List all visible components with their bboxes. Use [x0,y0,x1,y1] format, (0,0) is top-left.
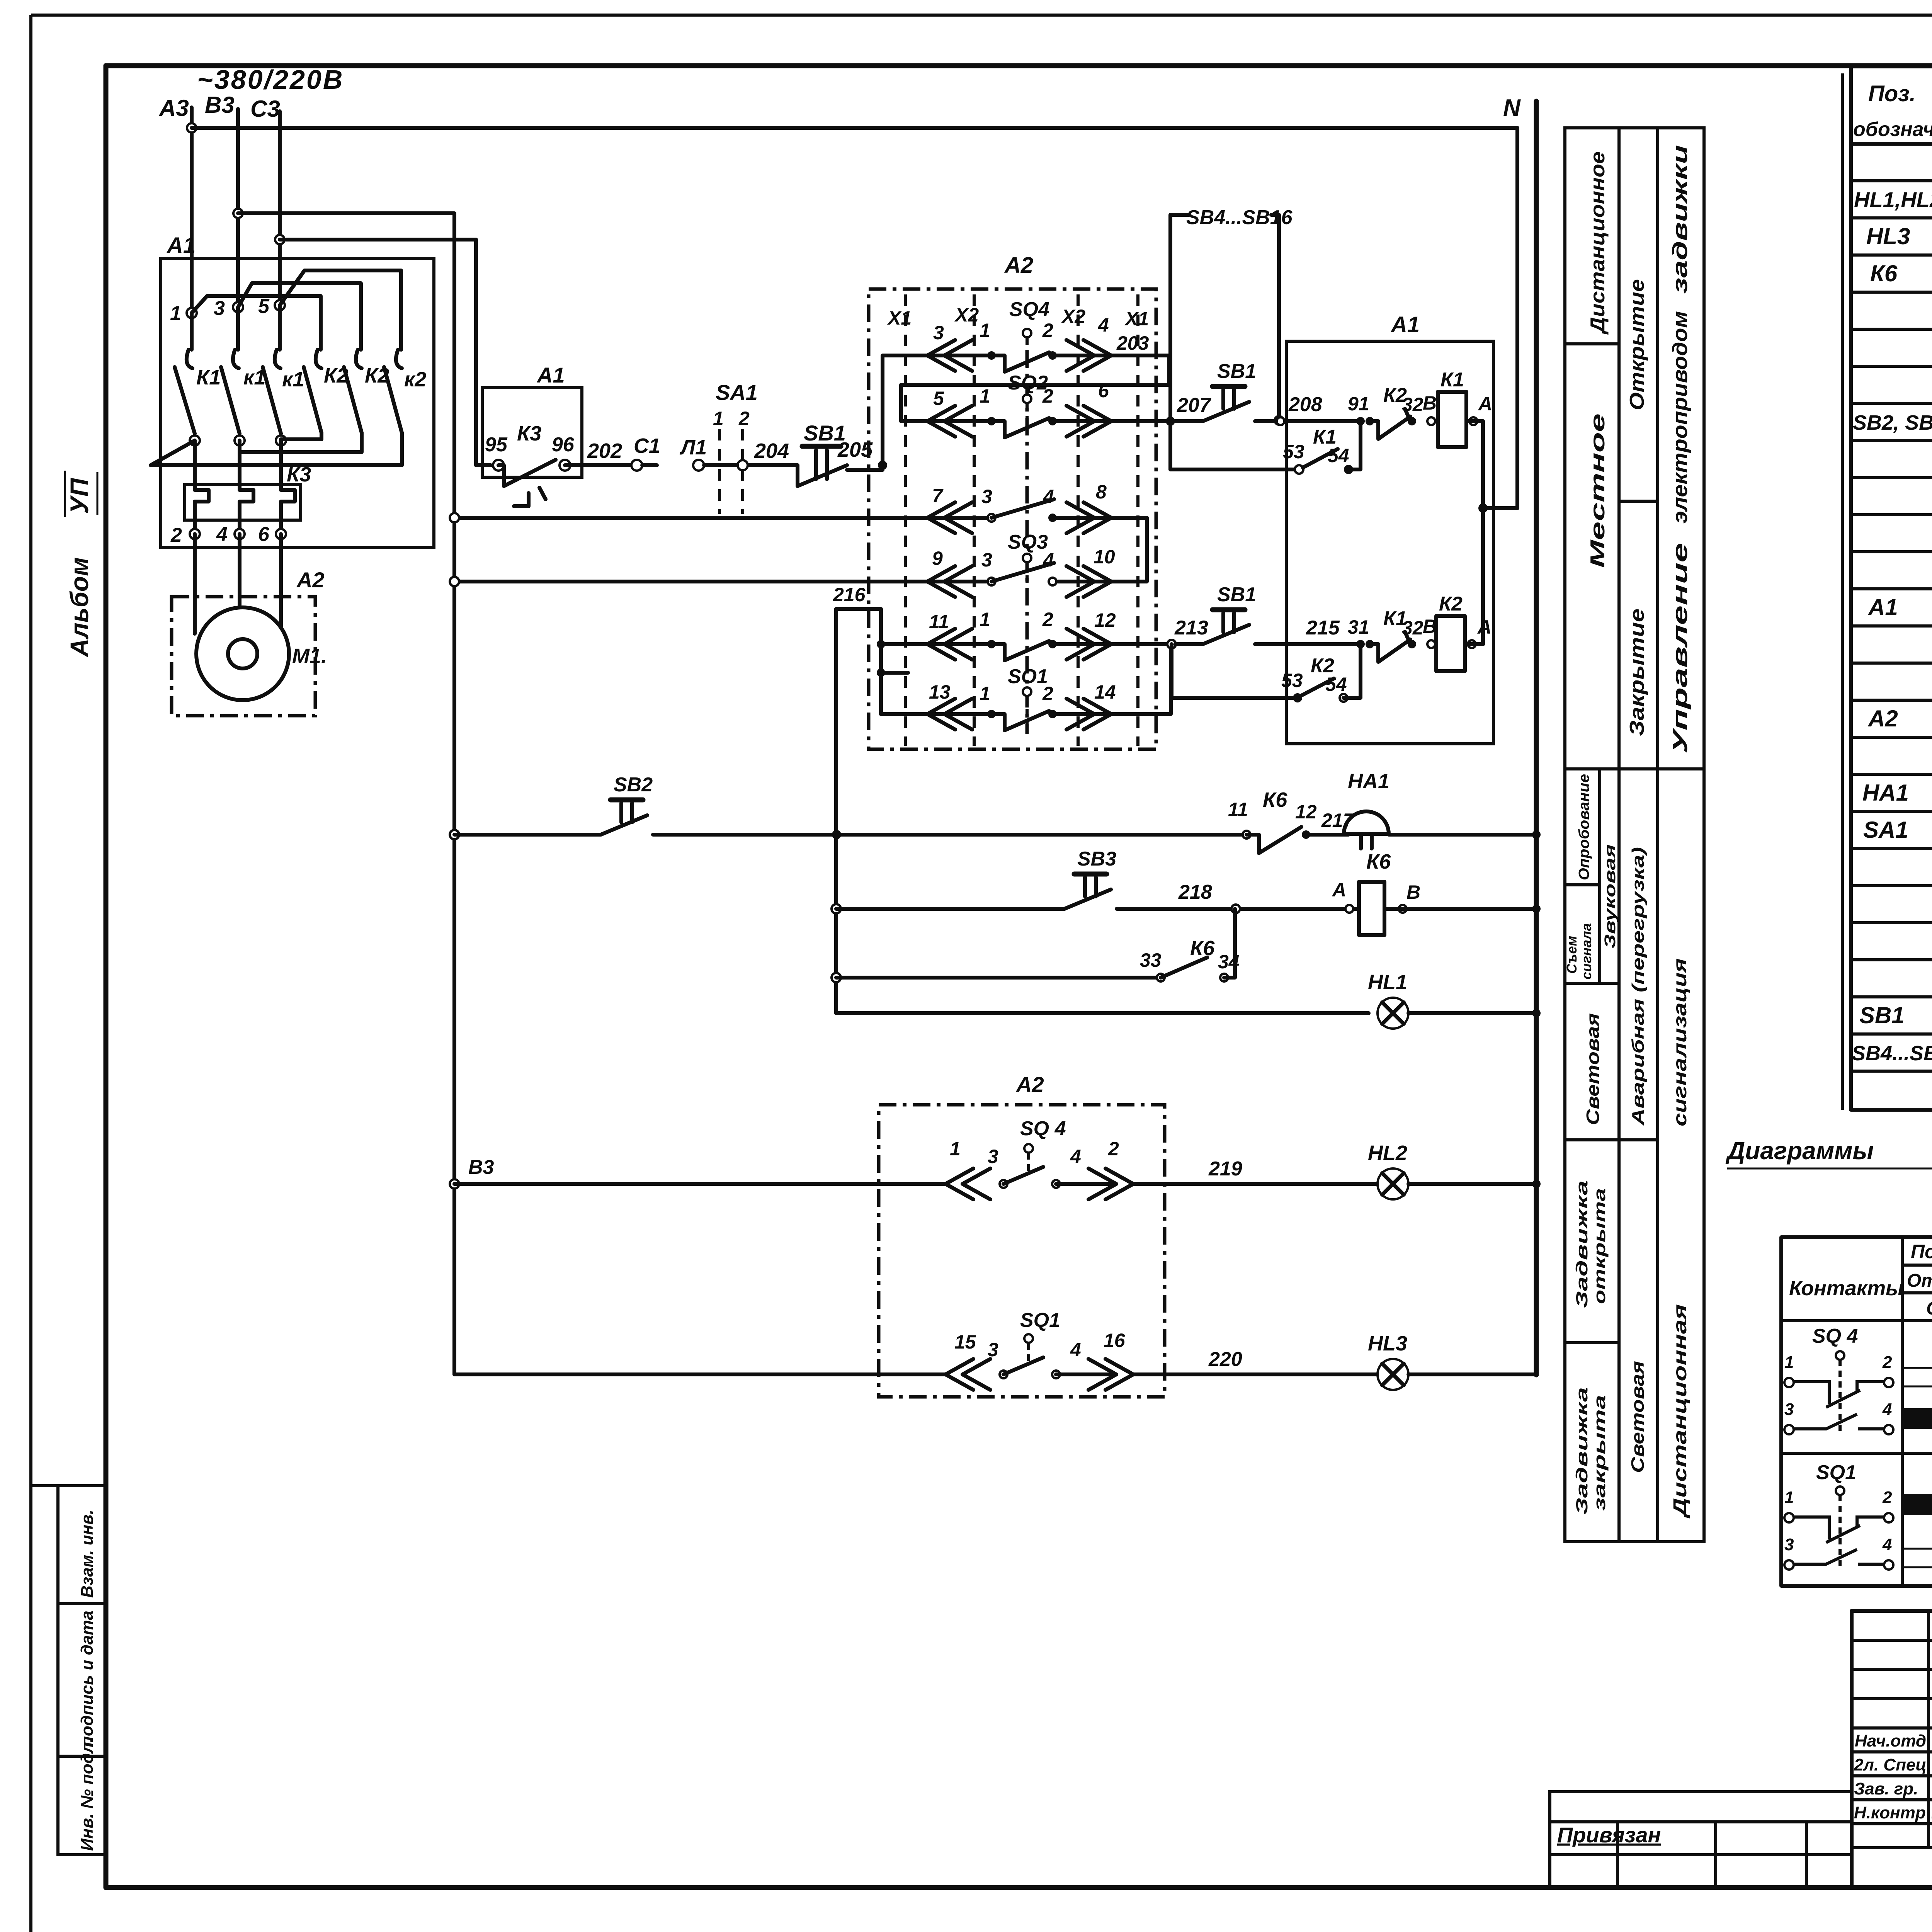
valve actuator box A2 (dash-dot) [869,253,1156,749]
svg-text:2: 2 [1882,1488,1892,1507]
svg-text:Взам. инв.: Взам. инв. [78,1510,97,1598]
svg-text:Опробование: Опробование [1576,774,1592,880]
limit switch SQ1 (signal row 15-3-4-16) [946,1309,1133,1390]
limit switch SQ1 row (pins 13-1-2-14) [927,644,1171,730]
limit switch row 11-12 [927,609,1170,660]
svg-text:4: 4 [1882,1535,1892,1554]
bell HA1 [1344,770,1536,849]
signature rows [1854,1731,1932,1822]
push button SB1 (open) [1170,360,1256,421]
wire trunk to contact 33 [836,976,1158,980]
svg-text:95: 95 [485,434,508,456]
svg-text:Х2: Х2 [954,304,979,326]
SQ4 closure bars [1902,1338,1932,1429]
svg-text:1: 1 [1784,1353,1794,1372]
svg-text:4: 4 [1070,1339,1081,1361]
svg-text:3: 3 [988,1339,998,1361]
wire phase C3 vertical [278,111,282,305]
terminal 4 [235,529,245,539]
svg-text:А2: А2 [296,568,325,592]
svg-text:Задвижка: Задвижка [1573,1180,1591,1308]
node 31 [1356,640,1365,648]
svg-text:А: А [1477,616,1492,638]
parts list table [1842,66,1932,1110]
wire motor feed 2 [238,534,241,607]
node B3 bus SB2 tap [450,830,459,839]
svg-text:Х1: Х1 [887,307,912,329]
svg-text:сигнализация: сигнализация [1670,958,1690,1126]
svg-text:электроприводом: электроприводом [1668,311,1692,524]
svg-text:4: 4 [1882,1400,1892,1419]
left stamp cells [31,1486,106,1855]
left attachment grid [1550,1792,1852,1888]
interlock contact K2 53-54 [1172,644,1361,702]
svg-text:218: 218 [1178,881,1212,903]
node B3 219 tap [450,1179,459,1189]
relay contact K2 NC 91-32 [1370,384,1437,439]
svg-text:Управление: Управление [1668,543,1692,753]
svg-text:SВ1: SВ1 [1217,583,1256,606]
table body rows [1852,148,1932,1065]
wire trunk to SB3 [836,907,1065,911]
wire C3 tap down to K3 thermal contact 95 [280,240,491,465]
svg-text:открыта: открыта [1590,1188,1609,1304]
svg-text:Поз.: Поз. [1868,81,1916,106]
lamp HL1 [1368,971,1536,1029]
limit switch SQ2 row (pins 5-1-2-6, to 207) [927,372,1170,437]
svg-text:А1: А1 [166,233,196,258]
coil K2 [1408,593,1492,671]
svg-text:2: 2 [170,524,182,546]
svg-text:К6: К6 [1190,937,1215,960]
svg-text:обознач.: обознач. [1853,118,1932,141]
svg-text:202: 202 [587,439,622,463]
svg-text:Дистанционное: Дистанционное [1587,151,1609,335]
starter box A1 [161,259,434,548]
svg-text:Световая: Световая [1628,1361,1648,1473]
terminal 6 [276,529,286,539]
svg-text:К3: К3 [517,422,541,445]
svg-text:SВ1: SВ1 [1217,360,1256,383]
svg-text:А2: А2 [1004,253,1033,278]
wire K2a bottom to pole3 node [281,433,321,439]
svg-text:Нач.отд: Нач.отд [1855,1731,1926,1750]
svg-text:К1: К1 [196,366,221,389]
left diagram table [1781,1237,1932,1586]
wire 219 to HL2 [1133,1182,1378,1186]
svg-text:3: 3 [1784,1400,1794,1419]
svg-text:2л. Спец.: 2л. Спец. [1854,1755,1931,1774]
wire row6 entry [881,712,992,716]
svg-text:Открыта: Открыта [1926,1298,1932,1319]
svg-text:Н.контр: Н.контр [1854,1803,1926,1822]
wire N bus [1534,101,1539,1375]
lamp HL2 [1368,1141,1536,1199]
svg-text:13: 13 [929,681,951,703]
svg-text:3: 3 [988,1146,998,1167]
svg-text:SQ2: SQ2 [1008,372,1048,394]
svg-text:А: А [1332,879,1346,901]
svg-text:Открытие: Открытие [1626,279,1648,410]
svg-text:5: 5 [933,388,944,409]
wire 208 into A1 [1255,419,1361,423]
svg-text:1: 1 [170,302,181,325]
svg-text:216: 216 [833,584,866,605]
svg-text:1: 1 [713,408,724,429]
wire top bus A3 to coil feed corner [192,128,1517,508]
svg-text:SВ4...SВ16: SВ4...SВ16 [1186,206,1293,229]
svg-text:12: 12 [1295,801,1317,823]
svg-text:32: 32 [1402,394,1423,415]
svg-text:4: 4 [1098,314,1109,336]
coil K6 [1332,850,1536,935]
svg-text:HL2: HL2 [1368,1141,1407,1165]
svg-text:208: 208 [1288,393,1322,416]
node 208 box entry [1277,417,1284,425]
svg-text:3: 3 [1784,1535,1794,1554]
svg-text:Задвижка: Задвижка [1573,1387,1591,1515]
svg-text:А1: А1 [536,363,565,387]
svg-text:54: 54 [1325,673,1347,695]
svg-text:1: 1 [980,609,990,630]
svg-text:N: N [1503,95,1521,121]
svg-text:2: 2 [1882,1353,1892,1372]
wire phase B3 vertical [236,109,240,307]
svg-text:6: 6 [1098,380,1109,401]
heater element pole2 [240,440,253,534]
svg-text:К6: К6 [1263,788,1287,811]
contactor K1 pole 2 [221,307,265,434]
svg-text:Аварибная (перегрузка): Аварибная (перегрузка) [1629,847,1648,1126]
node C3 tap [275,235,284,244]
node 91 [1356,417,1365,425]
motor unit box A2 [172,568,325,716]
svg-text:В3: В3 [205,92,235,118]
node trunk 205 [878,461,887,470]
svg-text:207: 207 [1177,394,1211,417]
svg-text:НА1: НА1 [1862,780,1909,806]
svg-text:НL1,HL2: НL1,HL2 [1854,187,1932,212]
wire to feed vertical [1483,506,1517,510]
svg-text:16: 16 [1104,1330,1126,1351]
wire trunk corner to HL1 [836,1011,1369,1015]
svg-text:сигнала: сигнала [1578,923,1594,980]
svg-text:219: 219 [1208,1158,1242,1180]
thermal relay K3 box [185,463,311,520]
svg-text:Альбом: Альбом [65,557,94,658]
contactor K1 pole 3 [263,305,304,434]
svg-text:М1.: М1. [292,645,327,668]
svg-text:Местное: Местное [1587,413,1609,568]
relay contact K1 NC 31-32 [1370,607,1437,662]
limit switch SQ3 upper row (pins 7-3-4-8) [927,481,1147,533]
limit switch SQ3 lower row (pins 9-3-4-10) [927,531,1115,597]
motor M1 [196,607,327,700]
svg-text:215: 215 [1306,617,1340,639]
svg-text:3: 3 [933,322,944,344]
terminal 1 [187,308,197,318]
wire SB2 to K6 contact [653,833,1243,837]
svg-text:14: 14 [1094,681,1116,703]
svg-text:96: 96 [552,434,575,456]
node 207 [1166,417,1175,426]
diagrams title [1725,1137,1932,1214]
contactor K2 pole 3 [384,350,426,433]
svg-text:53: 53 [1283,441,1304,463]
wire crossover phase5 to K2c [280,270,401,350]
svg-text:Х2: Х2 [1061,306,1085,327]
svg-text:НА1: НА1 [1348,770,1389,793]
terminal 3 [233,302,243,312]
wire crossover phase1 to K2a [192,296,321,350]
vertical legend table [1565,128,1704,1542]
svg-text:С3: С3 [250,96,280,122]
svg-text:закрыта: закрыта [1590,1395,1609,1511]
svg-text:1: 1 [950,1138,961,1160]
svg-text:SА1: SА1 [1863,817,1908,843]
SQ1 closure bars [1902,1469,1932,1568]
wire 215 into A1 [1255,642,1361,646]
switch symbol SQ4 [1784,1325,1893,1434]
svg-text:Диаграммы: Диаграммы [1725,1137,1874,1165]
wire K2b bottom to pole2 node [240,433,362,452]
connector line X1 right [1124,294,1149,746]
contactor K2 pole 1 [304,350,348,433]
svg-text:SQ1: SQ1 [1816,1461,1856,1484]
svg-text:А3: А3 [158,95,189,121]
svg-text:подпись и дата: подпись и дата [78,1611,97,1747]
switch symbol SQ1 [1784,1461,1893,1570]
svg-text:к2: к2 [404,368,426,391]
node coil feed junction [1478,503,1488,513]
label Задвижка закрыта [1573,1387,1609,1515]
svg-text:А2: А2 [1867,706,1898,731]
svg-text:К6: К6 [1870,260,1898,286]
svg-text:2: 2 [738,408,750,429]
node bell to N [1532,830,1541,839]
wire loop row1 to row2 [901,355,1169,421]
wire L1 to SA1 [704,463,798,467]
thermal NC contact K3 95-96 [485,422,575,506]
title block frame [1852,1611,1932,1888]
svg-text:31: 31 [1348,616,1369,638]
connector line X2 right [1061,294,1085,746]
svg-text:В3: В3 [468,1156,494,1179]
wire stub into box [881,671,908,675]
svg-text:~380/220В: ~380/220В [197,65,344,95]
node stub tap [877,668,885,677]
limit switch SQ4 (signal row 1-3-4-2) [946,1117,1133,1199]
svg-text:Х1: Х1 [1124,308,1149,330]
contactor K2 pole 2 [344,350,389,433]
svg-text:32: 32 [1402,617,1423,639]
svg-text:Открытие: Открытие [1907,1270,1932,1291]
wire row3 from B3 bus [454,516,992,520]
wire B3 tap to left bus [238,213,454,1374]
album label rotated: Альбом VII [65,471,97,658]
svg-text:9: 9 [932,548,943,569]
svg-text:SQ4: SQ4 [1009,298,1049,321]
node lower pole 2 [235,435,245,446]
label Задвижка открыта [1573,1180,1609,1308]
node signal trunk top [832,830,841,839]
limit switch SQ4 row (pins 3-1-2-4, wire 203) [927,298,1169,372]
svg-text:1: 1 [1784,1488,1794,1507]
node HL1 to N [1532,1009,1541,1017]
svg-text:SВ4...SВ16: SВ4...SВ16 [1852,1042,1932,1065]
wire row4 from B3 bus [454,580,992,583]
svg-text:HL1: HL1 [1368,971,1407,994]
node lower pole 1 [190,435,200,446]
wire coil return riser [1481,421,1485,644]
svg-text:SВ2: SВ2 [614,774,653,796]
wire 216 feed [833,584,881,714]
node 218 [1231,905,1240,913]
svg-text:Инв. № подл.: Инв. № подл. [78,1738,97,1851]
push button SB3 [1065,848,1116,909]
node row3 bus tap [450,513,459,522]
svg-text:3: 3 [214,297,225,320]
svg-text:11: 11 [929,611,949,633]
lamp HL3 [1368,1332,1536,1390]
terminal L1 [693,460,704,471]
interlock contact K1 53-54 [1170,421,1361,474]
svg-text:1: 1 [980,320,990,341]
wire 219 row [454,1182,946,1186]
svg-text:А: А [1478,393,1492,415]
node K6 to N [1532,905,1541,913]
wire 220 row from B3 [454,1372,946,1376]
svg-text:SВ2, SВ3: SВ2, SВ3 [1853,411,1932,434]
svg-text:В: В [1406,881,1420,903]
svg-text:А2: А2 [1015,1072,1044,1097]
svg-text:Зав. гр.: Зав. гр. [1854,1779,1918,1798]
svg-text:4: 4 [1070,1146,1081,1167]
svg-text:SQ3: SQ3 [1008,531,1048,553]
relay contact K6 11-12 [1228,788,1355,853]
contactor K1 pole 1 [175,313,221,434]
relay contact K6 33-34 [1140,909,1240,981]
wire 205 to A2 trunk [847,465,883,470]
svg-text:А1: А1 [1390,312,1420,337]
svg-text:91: 91 [1348,393,1369,415]
svg-text:213: 213 [1174,617,1208,639]
svg-text:SВ3: SВ3 [1077,848,1116,870]
svg-text:Положение задвижки: Положение задвижки [1911,1241,1932,1262]
svg-text:5: 5 [258,295,270,318]
node row4 bus tap [450,577,459,586]
svg-text:3: 3 [981,549,992,571]
switch SA1 (package switch, dashed poles 1,2) [713,380,758,514]
svg-text:HL3: HL3 [1866,223,1910,249]
wire signal trunk [834,609,838,1013]
svg-text:к1: к1 [282,368,304,391]
svg-text:Привязан: Привязан [1557,1823,1661,1847]
svg-text:4: 4 [1043,486,1054,507]
svg-text:15: 15 [954,1331,976,1353]
thermal contact box A1 [482,363,582,477]
svg-text:Звуковая: Звуковая [1602,844,1619,949]
wire motor feed 3 [279,534,283,628]
push button SB1 (close) [1175,583,1256,644]
svg-text:7: 7 [932,485,944,507]
terminal 2 [190,529,200,539]
svg-text:УП: УП [65,478,94,514]
wire B3 to SB2 [454,833,601,837]
node HL2 to N [1532,1180,1541,1188]
svg-text:SВ1: SВ1 [1859,1002,1905,1028]
svg-text:SQ 4: SQ 4 [1020,1117,1066,1140]
svg-text:2: 2 [1042,320,1053,341]
svg-text:11: 11 [1228,799,1248,820]
table header texts [1853,81,1932,141]
wire trunk 205 up to row1 [883,355,992,465]
svg-text:33: 33 [1140,949,1162,971]
svg-text:8: 8 [1096,481,1107,503]
svg-text:53: 53 [1281,670,1303,691]
wire K2c bottom to pole1 node [151,433,402,465]
svg-text:220: 220 [1208,1348,1242,1371]
terminal C1 [631,460,642,471]
node row5 tap [877,640,885,648]
mechanical linkage line [1026,350,1029,734]
node trunk 33 tap [832,973,841,982]
push button SB1 (main) [798,421,847,486]
svg-text:203: 203 [1116,332,1149,354]
svg-text:6: 6 [258,523,270,546]
svg-text:2: 2 [1108,1138,1119,1160]
svg-text:1: 1 [980,385,990,407]
svg-text:К6: К6 [1366,850,1391,873]
svg-text:задвижки: задвижки [1668,145,1692,294]
svg-text:SО1: SО1 [1008,665,1048,688]
svg-text:10: 10 [1094,546,1115,568]
wire phase A3 vertical [190,107,194,313]
svg-text:В: В [1423,392,1437,414]
wire loop row3-row4 right [1053,518,1147,582]
wire 202 [565,463,634,467]
wire 220 to HL3 [1133,1372,1378,1376]
svg-text:1: 1 [980,683,990,704]
svg-text:К3: К3 [287,463,311,486]
terminal 5 [275,300,285,310]
label Съем сигнала [1564,923,1594,980]
svg-text:SQ 4: SQ 4 [1812,1325,1858,1347]
node B3 tap [233,209,243,218]
node 213 [1167,640,1176,648]
heater element pole3 [281,440,295,534]
svg-text:К2: К2 [1439,593,1463,615]
svg-text:2: 2 [1042,609,1053,630]
node trunk SB3 tap [832,904,841,913]
svg-text:HL3: HL3 [1368,1332,1407,1355]
svg-text:3: 3 [981,486,992,507]
wire 218 to K6 coil [1117,907,1359,911]
node lower pole 3 [276,435,286,446]
coil K1 [1408,369,1492,447]
wire crossover phase3 to K2b [238,283,361,350]
connector line X2 left [954,294,979,746]
node A3 top bus junction [187,123,196,133]
valve box A2 bottom (dash-dot) [879,1072,1165,1397]
svg-text:4: 4 [216,523,228,546]
svg-text:С1: С1 [634,434,660,457]
svg-text:SА1: SА1 [716,380,758,405]
svg-text:Закрытие: Закрытие [1626,609,1648,736]
relay box A1 [1286,312,1493,744]
svg-text:SQ1: SQ1 [1020,1309,1060,1332]
svg-text:Съем: Съем [1564,936,1580,974]
